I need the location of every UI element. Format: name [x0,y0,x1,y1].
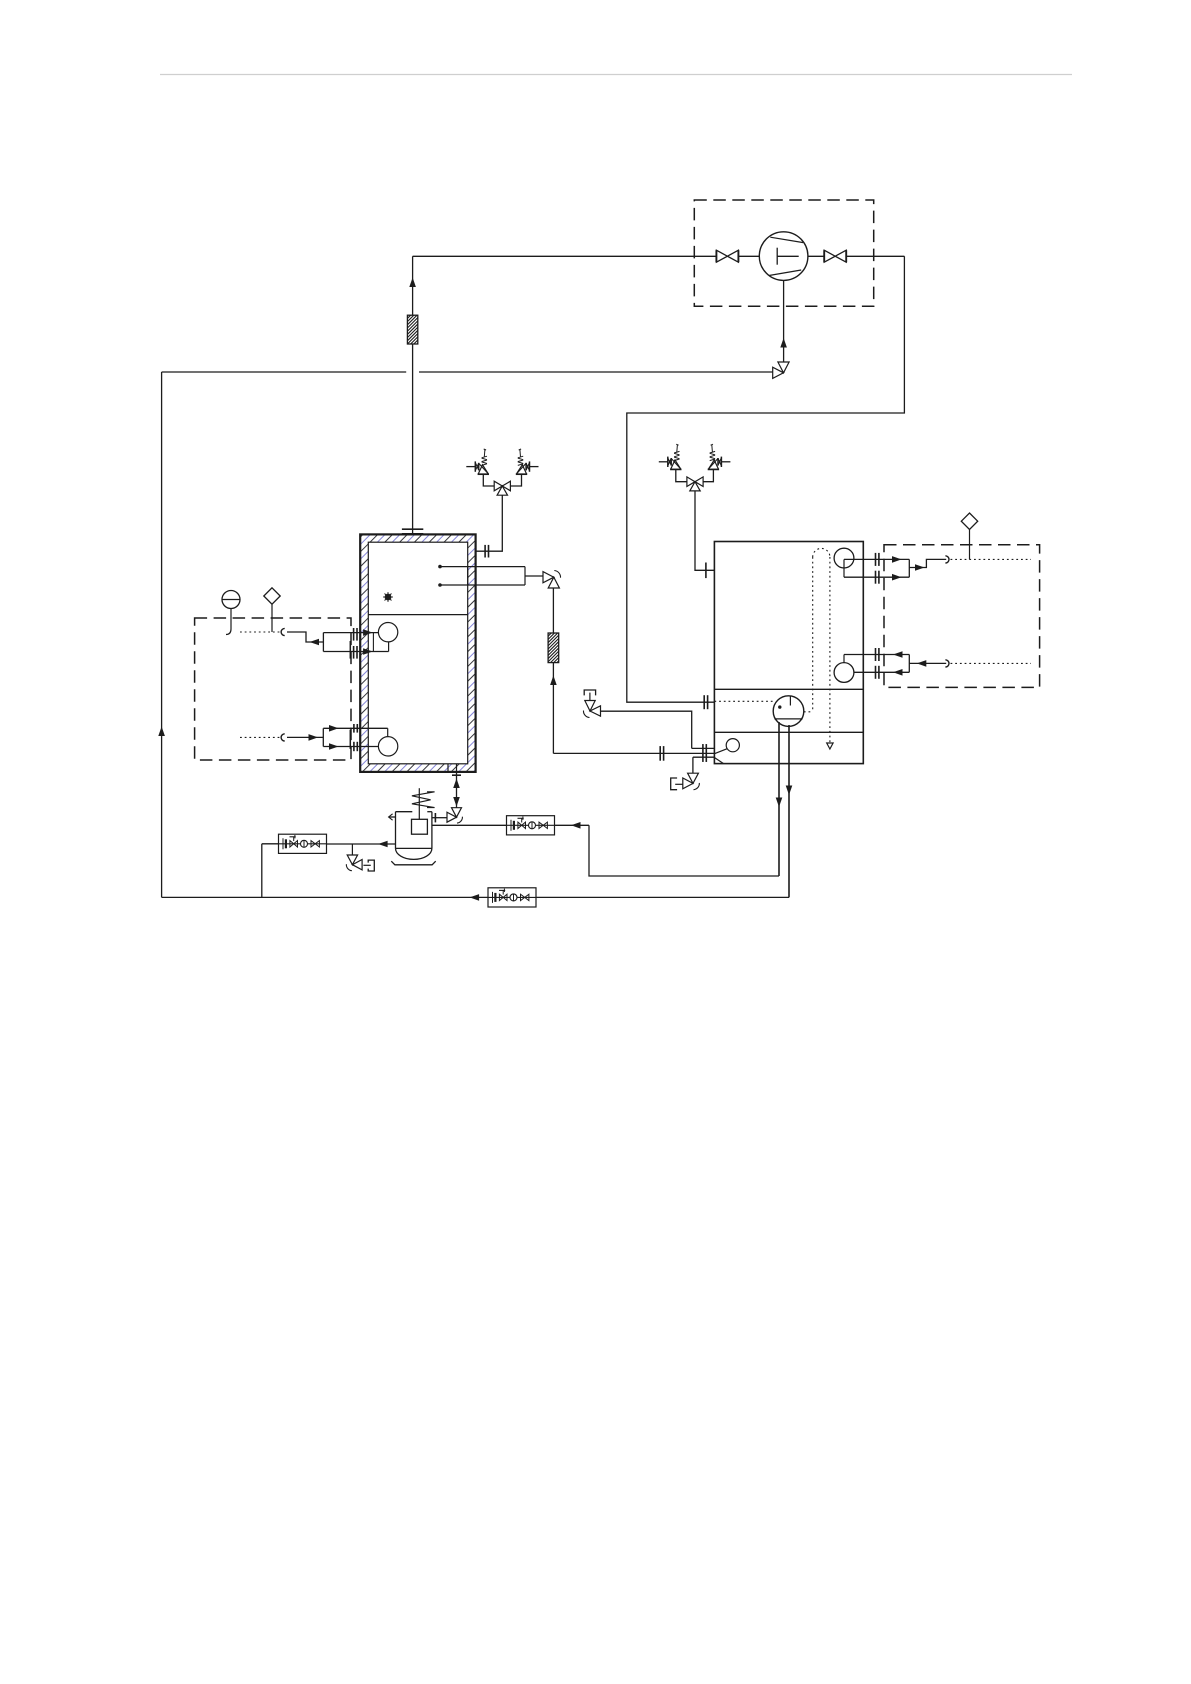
wire separator vapour riser [412,256,414,315]
wire discharge downcomer [627,256,905,702]
wire water inlet [909,662,946,664]
wire level gauge lower dotted [240,736,280,738]
float probe in separator [440,566,525,568]
wire relief group piping (cooler) [676,469,687,481]
check valve under compressor [778,362,789,373]
wire discharge line [808,255,905,257]
wire left oil loop riser [161,372,163,897]
wire compressor oil feed drop [783,280,785,362]
oil cooler vessel shell [714,542,863,764]
instrument dashed enclosure left [195,618,351,760]
wire cooler drain [692,757,694,773]
wire to regulator [432,817,447,819]
wire water outlet [909,559,946,567]
separator drain mark [385,594,392,601]
check valve at probe outlet [543,572,554,583]
shutoff valve discharge [824,250,835,262]
sight glass assembly left [279,834,327,853]
heater element lower with motor [323,727,387,729]
check valve at overflow funnel [585,701,595,712]
wire dotted internal coil [804,711,813,713]
oil separator vessel shell [360,534,475,772]
filter on oil supply line [519,633,590,663]
regulator vent stub [389,816,396,818]
compressor [759,232,808,281]
separator internal liquid level line [368,614,467,616]
wire overflow to funnel [601,711,692,748]
wire pump discharge A [778,722,780,876]
three-way changeover valve [494,481,502,491]
wire regulator to sight-glass left [326,843,395,845]
cooling water inlet coil head [834,663,854,683]
wire oil return header [162,371,407,373]
wire level gauge lower tap [287,736,323,738]
wire cooler lower nozzles [692,747,715,749]
wire bottom oil return [162,896,789,898]
relief valve right [530,466,539,468]
sight glass assembly right [507,816,555,835]
flange separator top [402,528,423,530]
compressor unit dashed enclosure [694,200,873,306]
flange condenser inlet [703,695,705,709]
drain funnel branch [351,844,353,855]
wire level gauge upper tap [287,632,323,642]
three-way changeover valve (cooler) [687,477,695,487]
page top rule [160,74,1072,76]
wire to oil return bottom [262,843,279,845]
relief valve left (cooler group) [659,461,668,463]
sight glass assembly bottom [488,888,536,907]
pressure gauge [222,591,240,609]
instrument diamond right [961,513,977,529]
instrument diamond left [264,588,280,604]
flange separator relief nozzle [484,545,486,558]
three-way valve group on separator: relief valve left [466,466,475,468]
float valve in cooler [726,739,739,752]
oil pump in cooler [773,696,804,727]
wire dotted suction to pump [714,700,773,702]
wire level gauge upper dotted [240,631,280,633]
relief valve right (cooler group) [721,461,730,463]
drain funnel [368,860,374,871]
cooling water outlet coil head [834,548,854,568]
heater element upper with motor [323,632,378,634]
filter on riser [379,315,449,344]
oil pressure regulator [396,811,413,813]
regulator bowl [396,848,432,859]
flange oil supply [659,746,661,761]
drain funnel cooler [671,778,677,790]
check valve above oil regulator [452,808,462,818]
wire oil supply horizontal run [553,752,714,754]
wire suction line [413,255,760,257]
wire oil supply line to cooler [552,588,554,633]
wire separator bottom nozzle [447,764,449,772]
overflow funnel [584,690,595,695]
shutoff valve suction [716,250,727,262]
wire relief group piping [483,474,494,486]
wire relief to cooler [695,491,714,570]
instrument dashed enclosure right [884,545,1040,688]
wire pump discharge B [788,725,790,897]
wire regulator outlet line [432,824,589,826]
